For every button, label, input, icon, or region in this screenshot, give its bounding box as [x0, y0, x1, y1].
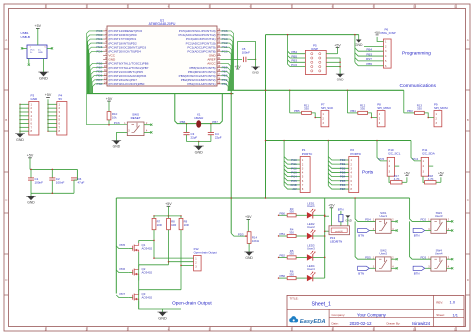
svg-text:AO3402: AO3402: [142, 247, 153, 251]
svg-text:TITLE:: TITLE:: [290, 296, 299, 300]
svg-text:16MHz: 16MHz: [194, 116, 204, 120]
svg-text:LED/BTN: LED/BTN: [330, 239, 342, 243]
svg-text:REV:: REV:: [436, 300, 443, 304]
svg-text:GND: GND: [31, 97, 39, 101]
svg-text:+5V: +5V: [334, 43, 341, 47]
svg-text:ATMEGA48-20PU: ATMEGA48-20PU: [149, 22, 176, 26]
svg-text:GND: GND: [245, 256, 253, 260]
svg-text:PC5: PC5: [379, 157, 385, 161]
svg-text:10R: 10R: [184, 223, 189, 227]
svg-text:BTN: BTN: [414, 234, 420, 238]
svg-text:BTN: BTN: [358, 234, 364, 238]
svg-text:User4: User4: [307, 267, 315, 271]
svg-text:Sheet:: Sheet:: [436, 313, 445, 317]
svg-text:GND: GND: [16, 138, 24, 142]
svg-text:PB0: PB0: [280, 211, 286, 215]
svg-text:GND: GND: [158, 316, 167, 320]
svg-text:PD5: PD5: [120, 243, 126, 247]
svg-text:A: A: [467, 38, 469, 42]
svg-text:PB1: PB1: [280, 232, 286, 236]
svg-text:PB4: PB4: [366, 48, 372, 52]
svg-text:10KΩ: 10KΩ: [252, 239, 259, 243]
svg-text:11: 11: [454, 327, 457, 331]
svg-text:Communications: Communications: [400, 83, 437, 89]
svg-text:Programming: Programming: [402, 51, 431, 57]
svg-text:SPI_MISO: SPI_MISO: [377, 106, 391, 110]
svg-text:User1: User1: [307, 204, 315, 208]
svg-text:PB6: PB6: [280, 274, 286, 278]
svg-text:330: 330: [417, 107, 422, 111]
svg-text:GND: GND: [113, 145, 121, 149]
svg-text:+5V: +5V: [45, 93, 52, 97]
svg-text:AO3402: AO3402: [142, 271, 153, 275]
svg-text:+5V: +5V: [106, 97, 113, 101]
svg-text:PB2: PB2: [280, 253, 286, 257]
svg-text:SPI_SCK: SPI_SCK: [321, 106, 333, 110]
svg-text:100nF: 100nF: [35, 180, 44, 184]
svg-text:GND: GND: [252, 70, 260, 74]
svg-text:Open-drain Output: Open-drain Output: [172, 301, 212, 307]
svg-text:PB5: PB5: [294, 109, 300, 113]
svg-text:USB-B: USB-B: [21, 35, 30, 39]
svg-text:PORTD: PORTD: [350, 152, 361, 156]
svg-text:10: 10: [413, 327, 417, 331]
svg-text:GND: GND: [355, 43, 363, 47]
svg-text:1/1: 1/1: [453, 312, 458, 317]
svg-text:4.7K: 4.7K: [394, 177, 400, 181]
svg-text:PB3: PB3: [407, 109, 413, 113]
svg-text:PB5: PB5: [366, 62, 372, 66]
svg-text:10R: 10R: [171, 223, 176, 227]
svg-text:+5V: +5V: [292, 187, 297, 191]
svg-text:+5V: +5V: [35, 24, 42, 28]
svg-text:PB4: PB4: [350, 109, 356, 113]
svg-text:22pF: 22pF: [215, 135, 222, 139]
svg-text:User4: User4: [435, 252, 443, 256]
svg-text:ICSP: ICSP: [311, 47, 318, 51]
svg-text:GND: GND: [27, 200, 35, 204]
svg-text:+5V: +5V: [328, 204, 335, 208]
svg-text:10: 10: [413, 5, 417, 9]
svg-text:I2C_SDA: I2C_SDA: [422, 152, 435, 156]
svg-text:AO3402: AO3402: [142, 296, 153, 300]
svg-text:2020-02-12: 2020-02-12: [350, 321, 373, 326]
svg-text:B: B: [467, 118, 469, 122]
svg-text:+5V: +5V: [404, 171, 411, 175]
svg-text:11: 11: [454, 5, 457, 9]
svg-text:PC6: PC6: [291, 63, 297, 67]
svg-text:+5V: +5V: [165, 202, 172, 206]
svg-text:Date:: Date:: [332, 322, 339, 326]
svg-text:GND: GND: [337, 78, 345, 82]
svg-text:RESET: RESET: [131, 116, 141, 120]
svg-text:330: 330: [360, 107, 365, 111]
svg-text:4.7K: 4.7K: [428, 177, 434, 181]
svg-text:PB6: PB6: [180, 120, 186, 124]
svg-text:PD7: PD7: [340, 187, 346, 191]
svg-text:A: A: [5, 38, 7, 42]
svg-text:GND: GND: [195, 150, 204, 154]
svg-text:330: 330: [289, 252, 294, 256]
svg-text:User3: User3: [435, 214, 443, 218]
svg-text:GND: GND: [39, 76, 48, 81]
svg-text:User3: User3: [307, 246, 315, 250]
svg-text:GND: GND: [38, 52, 43, 54]
svg-text:PD6: PD6: [120, 267, 126, 271]
svg-text:Sheet_1: Sheet_1: [312, 302, 331, 308]
svg-text:+5V: +5V: [374, 31, 381, 35]
svg-text:User2: User2: [379, 252, 387, 256]
svg-text:PD3: PD3: [238, 232, 244, 236]
svg-text:330: 330: [304, 107, 309, 111]
svg-text:330: 330: [289, 210, 294, 214]
svg-text:100nF: 100nF: [56, 180, 65, 184]
svg-text:PB1(OC1A/PCINT1): PB1(OC1A/PCINT1): [187, 82, 215, 86]
svg-text:PRG_ICSP: PRG_ICSP: [381, 31, 396, 35]
svg-text:Company:: Company:: [332, 313, 346, 317]
svg-text:PD7: PD7: [120, 292, 126, 296]
svg-text:Open-drain Output: Open-drain Output: [194, 251, 217, 255]
svg-text:EasyEDA: EasyEDA: [300, 319, 326, 325]
svg-text:+5V: +5V: [245, 215, 252, 219]
svg-text:BTN: BTN: [414, 271, 420, 275]
svg-text:+5V: +5V: [438, 171, 445, 175]
svg-text:PORTC: PORTC: [302, 152, 313, 156]
svg-text:(PCINT0/CLKO/ICP1)PB0: (PCINT0/CLKO/ICP1)PB0: [108, 82, 144, 86]
svg-text:100nF: 100nF: [242, 51, 250, 55]
svg-text:GND: GND: [345, 219, 351, 223]
svg-text:RST: RST: [366, 57, 372, 61]
svg-text:22pF: 22pF: [191, 135, 198, 139]
svg-text:1.0: 1.0: [450, 300, 456, 305]
svg-text:BTN: BTN: [358, 271, 364, 275]
svg-text:PC4: PC4: [413, 157, 419, 161]
svg-text:PB3: PB3: [366, 52, 372, 56]
svg-text:Drawn By:: Drawn By:: [387, 322, 401, 326]
svg-text:5V: 5V: [59, 97, 63, 101]
svg-text:I2C_SCL: I2C_SCL: [388, 152, 401, 156]
svg-text:User1: User1: [379, 214, 387, 218]
svg-text:push(4): push(4): [335, 231, 343, 233]
svg-text:PC6: PC6: [114, 121, 120, 125]
svg-text:Isirawit24: Isirawit24: [412, 321, 431, 326]
svg-text:D-: D-: [30, 52, 33, 54]
svg-text:+5V: +5V: [27, 154, 34, 158]
svg-text:330: 330: [289, 230, 294, 234]
svg-text:B: B: [5, 118, 7, 122]
svg-text:User2: User2: [307, 225, 315, 229]
svg-text:SPI_MOSI: SPI_MOSI: [434, 106, 448, 110]
svg-text:330: 330: [289, 272, 294, 276]
svg-text:47uF: 47uF: [78, 180, 85, 184]
svg-text:VCC: VCC: [30, 50, 35, 52]
svg-text:Your Company: Your Company: [357, 312, 387, 317]
svg-text:Ports: Ports: [362, 170, 374, 176]
svg-text:10k: 10k: [112, 116, 117, 120]
svg-text:PB7: PB7: [212, 120, 218, 124]
svg-text:10R: 10R: [157, 223, 162, 227]
